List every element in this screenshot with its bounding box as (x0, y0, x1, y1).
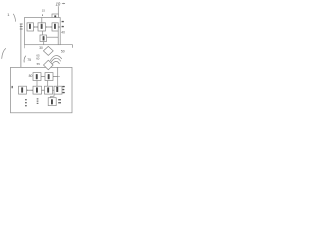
wire U2-U3 (46, 26, 53, 28)
box U4 (40, 35, 47, 42)
box F (45, 73, 53, 81)
wire G to H jog (51, 94, 54, 98)
svg-text:55: 55 (37, 62, 41, 66)
wifi arcs wireless link (50, 56, 62, 65)
box E (33, 73, 41, 81)
box U3 (52, 23, 58, 31)
node ellipsis below J (37, 98, 39, 103)
box H (48, 98, 56, 106)
svg-text:80: 80 (29, 74, 33, 78)
wire antenna lead from top edge down to box G (57, 67, 59, 86)
svg-text:50: 50 (61, 49, 65, 53)
wire leader from label 10 to antenna box (57, 6, 59, 14)
svg-text:40: 40 (61, 30, 65, 34)
node ellipsis bottom-left inside device box (25, 99, 27, 106)
wire F to antenna line (53, 76, 58, 78)
diamond antenna D2 (straddles device box top edge) (44, 60, 54, 69)
wire arrow right of label 10 (62, 3, 65, 5)
wire from reader bottom-right going right then down stub (60, 45, 72, 48)
wire stub right of antenna lead (58, 76, 60, 78)
node label right of G (three rows) (62, 86, 64, 93)
box K (45, 86, 53, 94)
wire input dashes into U1 (20, 24, 23, 29)
wire E-F (41, 76, 45, 78)
node tick inside device box left edge (12, 86, 13, 88)
wire U2 bottom to U4 (42, 31, 44, 35)
wire leader curve at far left middle (2, 48, 6, 59)
wire K-G (53, 89, 55, 91)
reader unit outer box 10 (25, 18, 61, 45)
node label 75 with leader (above device box) (24, 56, 26, 63)
diamond antenna D1 (43, 46, 53, 55)
box J (33, 86, 42, 94)
bottom device outer box 70 (11, 67, 73, 112)
svg-text:30: 30 (39, 46, 43, 50)
svg-text:60: 60 (36, 57, 40, 61)
svg-text:75: 75 (27, 58, 31, 62)
wire U2 top to box edge (41, 18, 43, 23)
wire tick below label 15 (42, 14, 44, 16)
wire I-J (27, 89, 34, 91)
wire U3 bottom down to box bottom edge (57, 31, 59, 45)
wire F bottom to K (47, 81, 49, 87)
box U1 (27, 23, 34, 31)
box I (19, 86, 27, 94)
wire U3 to right edge (58, 26, 60, 28)
wire U4 bottom short to bottom edge (43, 42, 45, 45)
svg-text:15: 15 (42, 9, 46, 13)
wire stub below reader box bottom-left corner (24, 45, 26, 49)
wire leader curve from label 1 (13, 14, 15, 22)
box U0 antenna interface (straddles reader top edge) (52, 14, 59, 21)
wire U4 right to vertical (47, 36, 59, 38)
wire E bottom to J (36, 81, 38, 87)
wire U1-U2 (34, 26, 39, 28)
node labels right of reader box (three rows) (62, 21, 64, 27)
node label right of H (two rows) (58, 99, 61, 103)
svg-text:10: 10 (56, 1, 61, 6)
box G (54, 86, 62, 94)
box U2 (38, 23, 46, 31)
wire J-K (42, 89, 45, 91)
wire bus line from reader down to device box I (20, 24, 22, 87)
